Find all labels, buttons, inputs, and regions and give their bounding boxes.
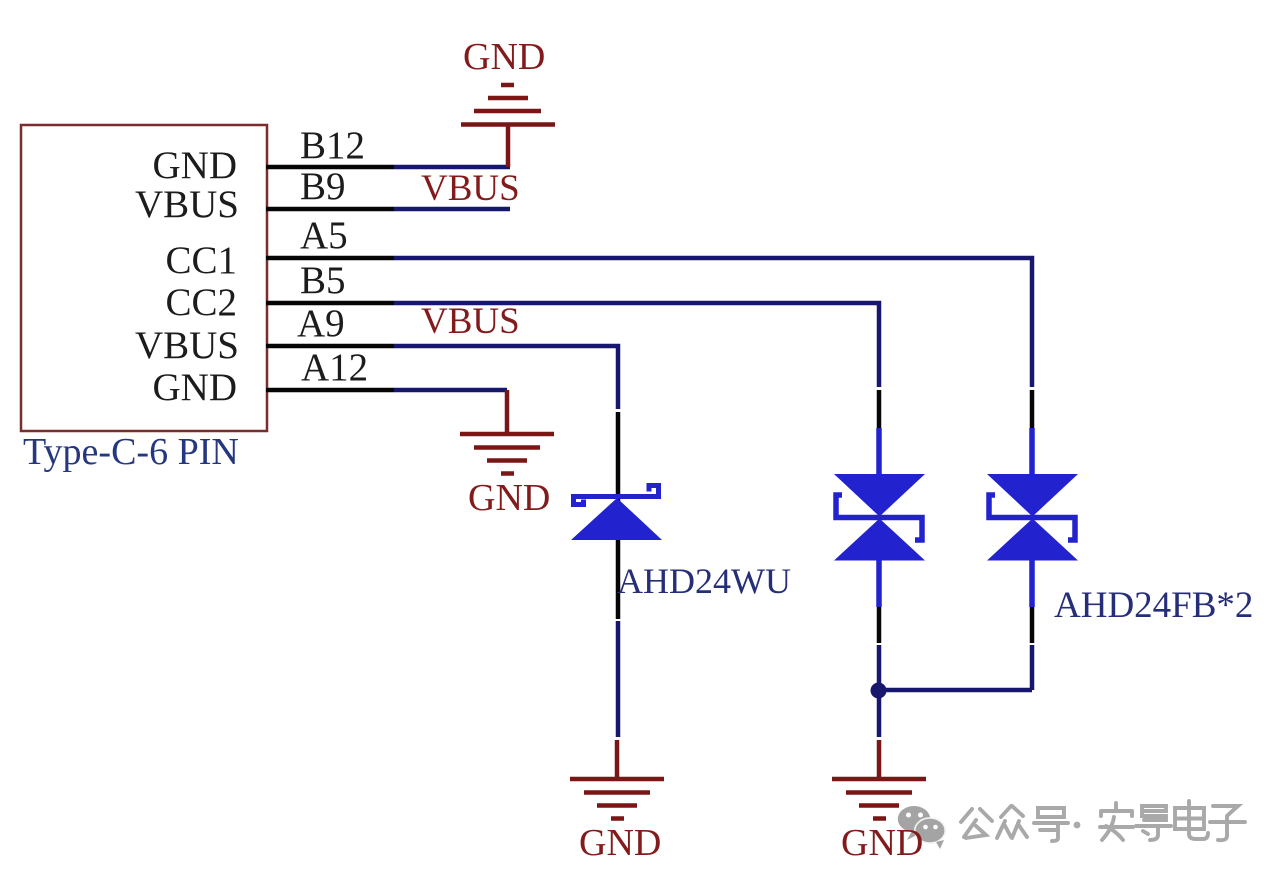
svg-text:GND: GND — [579, 822, 661, 864]
svg-text:VBUS: VBUS — [421, 301, 520, 342]
svg-text:GND: GND — [153, 144, 238, 187]
svg-text:B5: B5 — [300, 259, 346, 302]
svg-text:VBUS: VBUS — [421, 168, 520, 209]
svg-text:A12: A12 — [301, 346, 368, 389]
svg-text:CC1: CC1 — [165, 239, 237, 282]
svg-text:GND: GND — [153, 366, 238, 409]
svg-text:AHD24WU: AHD24WU — [617, 561, 791, 601]
svg-text:VBUS: VBUS — [135, 183, 239, 226]
svg-text:A9: A9 — [297, 302, 345, 345]
svg-text:Type-C-6 PIN: Type-C-6 PIN — [23, 431, 239, 473]
svg-text:AHD24FB*2: AHD24FB*2 — [1054, 585, 1253, 626]
svg-text:GND: GND — [468, 477, 550, 519]
svg-text:A5: A5 — [300, 214, 348, 257]
svg-text:B12: B12 — [300, 124, 365, 167]
svg-text:GND: GND — [841, 822, 923, 864]
svg-text:GND: GND — [463, 36, 545, 78]
svg-text:B9: B9 — [300, 165, 346, 208]
svg-text:CC2: CC2 — [165, 281, 237, 324]
svg-text:VBUS: VBUS — [135, 324, 239, 367]
